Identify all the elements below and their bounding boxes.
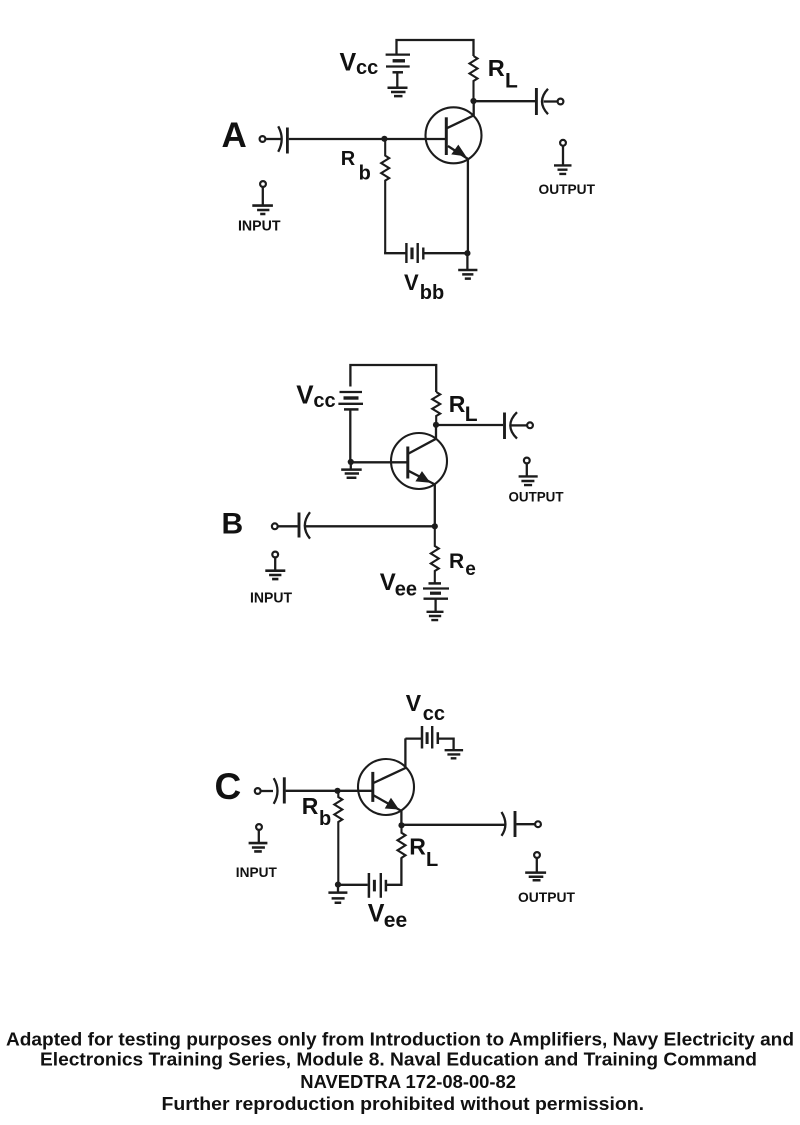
svg-text:cc: cc	[356, 57, 378, 79]
wire collector to output cap B	[436, 424, 503, 426]
capacitor C-out-B straight plate	[503, 413, 506, 440]
svg-text:ee: ee	[384, 909, 407, 932]
wire output ground stub	[562, 146, 564, 165]
node emitter/ground junction dot	[464, 250, 470, 256]
svg-text:Adapted for testing purposes o: Adapted for testing purposes only from I…	[6, 1030, 794, 1050]
wire collector to output capacitor	[474, 100, 536, 102]
battery Vee-B plates	[429, 582, 442, 585]
ground symbol under output B	[519, 476, 538, 485]
wire junction to ground	[466, 253, 468, 269]
node ground junction dot B	[348, 459, 354, 465]
wire Vee-B to ground	[434, 599, 436, 611]
transistor Q2 emitter arrow	[417, 473, 429, 482]
capacitor C-in-C curved plate	[274, 778, 278, 804]
capacitor C-in-C straight plate	[283, 777, 286, 803]
ground input terminal C	[256, 824, 262, 830]
capacitor C-in-A straight plate	[286, 128, 289, 154]
ground input terminal B	[272, 552, 278, 558]
svg-text:R: R	[302, 793, 319, 819]
wire cap to output terminal C	[516, 823, 534, 825]
svg-text:R: R	[488, 55, 505, 81]
node collector junction dot B	[433, 422, 439, 428]
svg-text:OUTPUT: OUTPUT	[509, 488, 564, 504]
svg-text:b: b	[319, 808, 331, 830]
svg-text:L: L	[426, 849, 438, 871]
wire Vcc top rail	[397, 40, 474, 56]
svg-text:L: L	[505, 69, 518, 92]
capacitor C-in-B curved plate	[305, 512, 310, 538]
wire input ground stub	[262, 187, 264, 205]
svg-text:OUTPUT: OUTPUT	[518, 889, 575, 905]
wire emitter node to output cap C	[402, 824, 506, 826]
resistor RL	[470, 56, 478, 101]
svg-text:V: V	[368, 900, 385, 928]
transistor Q3 collector lead	[373, 738, 405, 783]
transistor Q3 emitter lead	[373, 795, 401, 825]
wire collector to Vcc battery C	[405, 737, 421, 739]
svg-text:INPUT: INPUT	[238, 218, 281, 235]
wire junction to Vee battery	[338, 884, 368, 886]
wire input terminal to cap B	[278, 525, 297, 527]
ground symbol right of Vcc C	[445, 750, 464, 758]
transistor Q2 base bar	[406, 447, 409, 479]
output terminal B	[527, 422, 533, 428]
transistor Q1 base bar	[445, 117, 448, 155]
ground below Vcc battery	[388, 88, 408, 96]
svg-text:V: V	[380, 569, 396, 596]
svg-text:R: R	[449, 391, 466, 417]
wire input terminal to cap C	[261, 790, 273, 792]
ground symbol under input C	[249, 843, 268, 851]
ground symbol under Vee B	[427, 612, 444, 620]
svg-text:V: V	[340, 49, 357, 77]
svg-text:V: V	[404, 270, 419, 295]
svg-text:OUTPUT: OUTPUT	[539, 181, 596, 197]
svg-text:B: B	[222, 507, 244, 540]
ground symbol under output A	[554, 165, 572, 174]
svg-text:L: L	[465, 403, 478, 426]
transistor Q1 emitter lead	[448, 146, 468, 253]
svg-text:V: V	[406, 690, 422, 716]
svg-text:ee: ee	[395, 578, 417, 600]
resistor Re	[431, 526, 439, 582]
svg-text:cc: cc	[313, 390, 335, 412]
node emitter junction dot C	[398, 822, 404, 828]
battery Vcc-B plates	[340, 391, 363, 393]
transistor Q2 collector lead	[408, 425, 436, 454]
node ground junction dot C	[335, 882, 341, 888]
svg-text:NAVEDTRA 172-08-00-82: NAVEDTRA 172-08-00-82	[300, 1072, 516, 1092]
capacitor C-in-B straight plate	[298, 513, 301, 538]
svg-text:V: V	[296, 379, 314, 409]
battery Vcc plates	[386, 53, 410, 55]
svg-text:R: R	[409, 834, 426, 860]
battery Vee-C plates	[368, 873, 371, 898]
svg-text:R: R	[341, 148, 356, 170]
transistor Q3 emitter arrow	[386, 799, 398, 808]
svg-text:Further reproduction prohibite: Further reproduction prohibited without …	[162, 1094, 645, 1114]
node A input terminal	[260, 136, 266, 142]
svg-text:INPUT: INPUT	[236, 864, 277, 880]
wire output ground stub B	[526, 464, 528, 476]
ground symbol mid B	[341, 470, 362, 478]
capacitor C-out-A curved plate	[542, 89, 548, 114]
node emitter junction dot B	[432, 523, 438, 529]
resistor RL-C	[398, 825, 406, 858]
transistor Q2 circle	[391, 433, 447, 489]
wire Vcc-B battery down to ground node	[349, 411, 351, 462]
input terminal B	[272, 523, 278, 529]
ground output terminal B	[524, 458, 530, 464]
svg-text:b: b	[359, 163, 371, 185]
wire cap to base C	[286, 790, 373, 792]
wire Rb bottom to Vbb	[385, 252, 406, 253]
wire input ground stub C	[258, 830, 260, 842]
wire capacitor to base (node B1)	[289, 138, 447, 140]
svg-text:R: R	[449, 550, 464, 573]
transistor Q1 circle	[426, 107, 482, 163]
resistor Rb	[381, 140, 389, 253]
ground output terminal C	[534, 852, 540, 858]
svg-text:INPUT: INPUT	[250, 589, 292, 606]
wire Vbb to emitter node	[423, 252, 467, 254]
capacitor C-out-C curved plate	[502, 812, 506, 836]
ground symbol under input A	[252, 206, 273, 214]
svg-text:cc: cc	[423, 703, 445, 725]
resistor RL-B	[432, 392, 440, 425]
svg-text:bb: bb	[420, 282, 444, 304]
capacitor C-out-C straight plate	[514, 811, 517, 837]
node junction dot base/Rb	[381, 136, 387, 142]
ground symbol under output C	[525, 873, 546, 881]
transistor Q1 emitter arrow	[453, 146, 465, 156]
ground symbol bottom A	[458, 270, 477, 279]
transistor Q3 circle	[358, 759, 414, 815]
capacitor C-out-A straight plate	[535, 88, 538, 115]
wire output ground stub C	[536, 858, 538, 872]
wire battery to ground	[396, 74, 398, 88]
svg-text:e: e	[465, 559, 476, 580]
wire terminal A to capacitor	[266, 138, 281, 140]
capacitor C-in-A curved plate	[278, 126, 282, 152]
svg-text:A: A	[222, 116, 247, 155]
wire Vcc-C to ground	[438, 739, 454, 750]
ground symbol bottom C	[328, 893, 347, 903]
wire cap to emitter node B	[306, 525, 435, 527]
wire capacitor to output terminal	[544, 100, 558, 102]
wire input ground stub B	[274, 558, 276, 571]
transistor Q2 emitter lead	[408, 471, 434, 527]
svg-text:C: C	[215, 766, 242, 807]
input terminal C	[255, 788, 261, 794]
node base junction dot C	[334, 788, 340, 794]
wire cap to output terminal B	[511, 424, 526, 426]
battery Vcc-C plates	[421, 726, 424, 749]
capacitor C-out-B curved plate	[510, 412, 517, 438]
wire junction to ground stub	[350, 462, 352, 469]
output terminal C	[535, 821, 541, 827]
battery Vbb plates	[405, 243, 407, 263]
wire ground node to base	[351, 461, 408, 463]
ground input terminal A	[260, 181, 266, 187]
ground symbol under input B	[265, 571, 285, 579]
svg-text:Electronics Training Series, M: Electronics Training Series, Module 8. N…	[40, 1050, 757, 1070]
node collector junction dot	[470, 98, 476, 104]
resistor Rb-C	[334, 791, 342, 885]
wire junction to ground stub C	[337, 885, 339, 893]
wire Vcc top rail B	[350, 365, 436, 392]
transistor Q1 collector lead	[447, 101, 474, 128]
ground output terminal A	[560, 140, 566, 146]
transistor Q3 base bar	[371, 772, 374, 802]
output terminal A	[558, 99, 564, 105]
wire Vee to RL bottom	[387, 858, 402, 885]
